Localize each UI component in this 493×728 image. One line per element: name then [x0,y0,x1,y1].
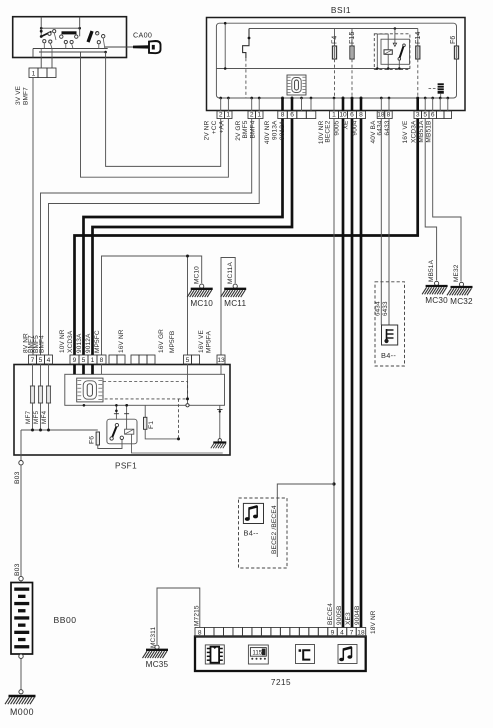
svg-text:MC10: MC10 [190,299,213,308]
svg-text:PSF1: PSF1 [115,462,137,471]
svg-text:18: 18 [357,630,365,637]
svg-text:XE3: XE3 [345,612,352,625]
svg-text:2: 2 [219,112,223,119]
svg-text:13: 13 [217,357,225,364]
svg-text:F14: F14 [415,31,422,44]
svg-text:115: 115 [252,650,262,657]
svg-text:7: 7 [31,357,35,364]
svg-text:B4--: B4-- [244,529,259,538]
svg-text:BB00: BB00 [54,615,77,625]
svg-text:1: 1 [32,71,36,78]
svg-text:9012A: 9012A [279,120,286,140]
svg-text:MF7: MF7 [25,410,32,424]
svg-text:MB51B: MB51B [426,121,433,143]
svg-text:2V NR: 2V NR [203,120,210,140]
svg-text:4: 4 [47,357,51,364]
svg-text:1: 1 [332,112,336,119]
svg-text:MB51A: MB51A [418,120,425,143]
svg-text:5: 5 [82,357,86,364]
svg-text:16V VE: 16V VE [198,330,205,353]
svg-text:F6: F6 [450,36,457,44]
svg-text:5: 5 [423,112,427,119]
svg-text:MF5: MF5 [33,410,40,424]
svg-text:8: 8 [387,112,391,119]
svg-text:3V VE: 3V VE [15,85,22,105]
svg-text:9012A: 9012A [85,333,92,353]
svg-text:3: 3 [416,112,420,119]
svg-text:8: 8 [281,112,285,119]
svg-text:1: 1 [226,112,230,119]
svg-text:10V NR: 10V NR [59,329,66,353]
svg-text:1: 1 [91,357,95,364]
svg-text:6434: 6434 [377,120,384,135]
svg-text:16V VE: 16V VE [402,120,409,143]
svg-text:CA00: CA00 [133,31,152,40]
svg-text:F15: F15 [349,31,356,44]
svg-text:40V NR: 40V NR [264,120,271,144]
svg-text:+CC: +CC [211,120,218,134]
svg-text:9004: 9004 [352,120,359,135]
svg-text:6: 6 [431,112,435,119]
svg-text:9013A: 9013A [272,120,279,140]
svg-text:9013A: 9013A [76,333,83,353]
svg-text:6433: 6433 [382,301,389,316]
svg-text:MC35: MC35 [146,660,169,669]
svg-text:7215: 7215 [271,678,291,687]
svg-text:MC30: MC30 [425,296,448,305]
svg-text:4: 4 [340,630,344,637]
svg-text:18: 18 [377,112,385,119]
svg-text:M7215: M7215 [194,605,201,626]
svg-text:8: 8 [198,630,202,637]
svg-text:MC32: MC32 [450,297,473,306]
svg-text:B03: B03 [14,563,21,576]
svg-text:BECE4: BECE4 [327,603,334,625]
svg-text:5: 5 [39,357,43,364]
svg-text:BMF7: BMF7 [22,87,29,105]
svg-text:ME32: ME32 [453,264,460,282]
svg-text:BMF4: BMF4 [250,120,257,138]
svg-text:MP5FC: MP5FC [94,330,101,353]
svg-text:6434: 6434 [374,301,381,316]
svg-text:M000: M000 [10,707,34,717]
svg-text:8: 8 [100,357,104,364]
svg-text:MC10: MC10 [193,266,200,284]
svg-text:+AA: +AA [219,120,226,133]
svg-text:6: 6 [290,112,294,119]
svg-text:6433: 6433 [384,120,391,135]
svg-text:9004B: 9004B [354,605,361,625]
svg-text:9: 9 [331,630,335,637]
svg-text:16V GR: 16V GR [158,329,165,353]
svg-text:MC11: MC11 [224,299,246,308]
svg-text:7: 7 [350,630,354,637]
svg-text:XCD3A: XCD3A [411,120,418,143]
svg-text:9005: 9005 [334,120,341,135]
svg-text:XCD3A: XCD3A [67,330,74,353]
svg-text:BECE2 /BECE4: BECE2 /BECE4 [271,505,278,554]
svg-text:6: 6 [350,112,354,119]
svg-text:MB51A: MB51A [428,259,435,282]
svg-text:F6: F6 [88,436,95,444]
svg-text:MC11A: MC11A [227,262,234,284]
svg-text:8: 8 [359,112,363,119]
svg-text:18V NR: 18V NR [370,610,377,634]
svg-text:9005B: 9005B [336,605,343,625]
svg-text:F4: F4 [332,36,339,44]
svg-text:MF4: MF4 [41,410,48,424]
svg-text:B03: B03 [14,471,21,484]
svg-text:MP5FA: MP5FA [205,330,212,353]
svg-text:1: 1 [257,112,261,119]
svg-text:16V NR: 16V NR [118,329,125,353]
svg-text:9: 9 [73,357,77,364]
svg-text:XE: XE [343,120,350,129]
svg-text:BMF5: BMF5 [242,120,249,138]
svg-text:BECE2: BECE2 [325,120,332,142]
svg-text:BMF4: BMF4 [39,335,46,353]
svg-text:MP5FB: MP5FB [169,331,176,353]
svg-text:10: 10 [339,112,347,119]
svg-text:B4--: B4-- [381,351,396,360]
svg-text:MC311: MC311 [150,627,157,648]
svg-text:2: 2 [250,112,254,119]
svg-text:BSI1: BSI1 [331,5,351,15]
svg-text:5: 5 [186,357,190,364]
svg-text:2V GR: 2V GR [235,120,242,140]
svg-text:F1: F1 [148,421,155,429]
